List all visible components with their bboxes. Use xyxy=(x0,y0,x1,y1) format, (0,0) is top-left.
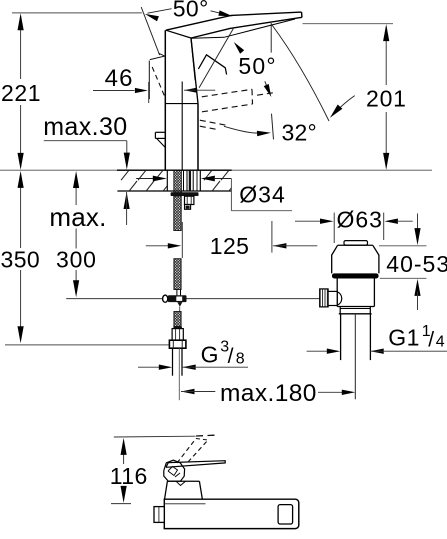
hole diameter arrows (Ø34) xyxy=(136,176,231,182)
dimension max.180 (rod length) xyxy=(181,380,355,407)
lever open position (dashed) xyxy=(200,89,277,130)
dimension max.30 (deck thickness leader) xyxy=(43,113,130,225)
svg-text:201: 201 xyxy=(366,86,407,112)
svg-text:Ø34: Ø34 xyxy=(239,182,285,208)
svg-text:300: 300 xyxy=(56,246,97,272)
dimension Ø63 (flange) xyxy=(295,207,413,244)
drain lever knob and pivot xyxy=(320,289,342,307)
svg-text:350: 350 xyxy=(1,246,41,272)
mounting washer plate xyxy=(171,192,199,196)
spout / lever blade (closed position) xyxy=(166,12,302,38)
svg-text:G: G xyxy=(201,341,219,367)
drain collar ring xyxy=(339,307,372,314)
supply hose segment 1 (braided) xyxy=(174,196,181,231)
svg-text:50°: 50° xyxy=(173,0,209,21)
svg-text:46: 46 xyxy=(105,65,134,92)
temperature limiter tab (left of body) xyxy=(155,132,165,147)
bottom view: spout body box with outlet window xyxy=(154,499,299,528)
supply hose segment 3 (braided) xyxy=(174,312,181,327)
svg-text:125: 125 xyxy=(210,233,250,259)
label Ø34 with leader xyxy=(231,179,292,211)
drain plug cap and flange xyxy=(332,241,379,274)
dimension 40-53 (clamping range) xyxy=(379,214,447,311)
svg-text:32°: 32° xyxy=(282,120,317,146)
svg-text:/: / xyxy=(228,345,234,368)
bottom view: lever blade (closed) xyxy=(166,461,225,468)
dimension 46 (body width) xyxy=(93,65,215,103)
svg-text:50°: 50° xyxy=(238,53,276,79)
dimension 116 (bottom view height) xyxy=(110,436,196,503)
pop-up rod horizontal line xyxy=(66,298,320,300)
label G3/8 (supply thread) xyxy=(138,339,248,370)
svg-text:116: 116 xyxy=(110,463,148,489)
G3/8 connection nut xyxy=(169,327,186,349)
dimension 125 xyxy=(146,221,317,259)
pop-up rod tee joint on hose xyxy=(163,290,187,312)
angular dimension 32 deg xyxy=(224,114,317,146)
mounting stud and nut xyxy=(185,196,194,209)
lever swivel phantom (left) xyxy=(149,53,165,99)
angular dimension 50 deg (lever swivel, top) xyxy=(141,0,232,55)
svg-text:max.30: max.30 xyxy=(43,113,127,141)
lever neck joint detail xyxy=(191,29,233,88)
dimension 201 (spout height) xyxy=(303,24,407,170)
label G1 1/4 (tailpipe thread) xyxy=(307,323,447,354)
svg-text:max.180: max.180 xyxy=(220,380,317,407)
svg-text:8: 8 xyxy=(236,350,245,367)
bottom view: body cone xyxy=(165,481,203,499)
extension line top-left (lever top) xyxy=(12,12,142,14)
supply hose segment 2 (braided) xyxy=(174,259,181,290)
drain tailpipe G1 1/4 xyxy=(341,314,371,400)
drain O-ring seal xyxy=(332,273,379,278)
threaded shank in deck hole xyxy=(174,171,197,196)
svg-text:max.: max. xyxy=(49,202,106,232)
bottom view: cartridge dome xyxy=(164,460,185,481)
faucet body column xyxy=(165,30,198,170)
dimension 221 (vertical, overall height) xyxy=(1,13,41,170)
svg-text:G1: G1 xyxy=(388,324,420,350)
countertop cross-section with hatch xyxy=(0,170,432,191)
svg-text:/: / xyxy=(428,328,434,351)
svg-text:221: 221 xyxy=(1,80,41,106)
bottom reference line (350 end) xyxy=(5,344,169,346)
drain body below seal xyxy=(337,279,374,307)
dimension 350 (deck to hose end) xyxy=(1,171,41,343)
svg-text:4: 4 xyxy=(436,334,445,351)
supply pipe end with centre line xyxy=(173,348,183,400)
angular dimension 50 deg (lever opening arc) xyxy=(234,23,355,121)
svg-text:40-53: 40-53 xyxy=(386,251,447,277)
bottom view: lever raised (dashed) xyxy=(177,435,219,463)
dimension max.300 (deck to pop-up rod) xyxy=(49,171,106,297)
svg-text:Ø63: Ø63 xyxy=(337,207,383,233)
